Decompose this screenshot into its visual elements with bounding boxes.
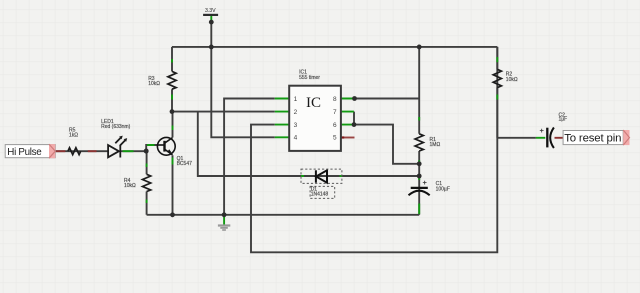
svg-text:+: + bbox=[423, 178, 428, 187]
svg-text:6: 6 bbox=[333, 122, 337, 129]
svg-text:2: 2 bbox=[294, 109, 298, 116]
svg-text:8: 8 bbox=[333, 96, 337, 103]
svg-text:10kΩ: 10kΩ bbox=[148, 81, 160, 87]
svg-text:To reset pin: To reset pin bbox=[564, 132, 621, 144]
svg-text:3: 3 bbox=[294, 122, 298, 129]
svg-text:+: + bbox=[540, 126, 545, 135]
svg-text:5: 5 bbox=[333, 135, 337, 142]
svg-text:555 timer: 555 timer bbox=[299, 75, 320, 81]
svg-text:7: 7 bbox=[333, 109, 337, 116]
svg-text:1kΩ: 1kΩ bbox=[69, 133, 78, 139]
svg-text:1: 1 bbox=[294, 96, 298, 103]
svg-text:4: 4 bbox=[294, 135, 298, 142]
svg-text:3.3V: 3.3V bbox=[205, 8, 216, 14]
svg-text:10kΩ: 10kΩ bbox=[124, 183, 136, 189]
svg-text:BC547: BC547 bbox=[177, 161, 193, 167]
svg-text:Hi Pulse: Hi Pulse bbox=[7, 147, 42, 158]
svg-text:1N4148: 1N4148 bbox=[311, 191, 329, 197]
svg-text:1MΩ: 1MΩ bbox=[430, 142, 441, 148]
svg-text:10kΩ: 10kΩ bbox=[506, 77, 518, 83]
svg-text:100µF: 100µF bbox=[436, 187, 450, 193]
svg-text:1µF: 1µF bbox=[559, 117, 568, 123]
svg-text:IC: IC bbox=[306, 95, 321, 111]
svg-text:Red (633nm): Red (633nm) bbox=[101, 124, 131, 130]
